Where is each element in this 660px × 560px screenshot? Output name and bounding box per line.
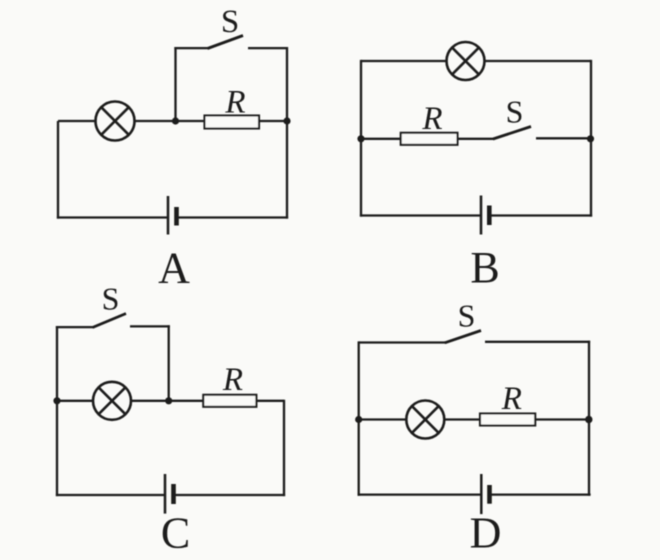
battery (circuit A) positive plate	[167, 196, 170, 235]
wire: D left vertical	[358, 341, 360, 495]
wire: B top right segment	[485, 60, 592, 62]
lamp (circuit C)	[93, 382, 131, 420]
battery (circuit B) negative plate	[487, 206, 492, 226]
wire: A switch branch top right	[248, 47, 288, 49]
svg-text:A: A	[158, 244, 190, 293]
battery (circuit D) negative plate	[487, 485, 492, 504]
wire: B left vertical	[360, 60, 362, 217]
node: D junction right	[585, 416, 592, 423]
node: A junction right	[283, 117, 290, 124]
wire: D middle right segment	[535, 418, 589, 420]
svg-text:S: S	[221, 4, 239, 40]
wire: D middle left segment	[359, 418, 407, 420]
wire: A main horizontal middle segment	[135, 120, 205, 122]
node: C junction middle	[165, 397, 172, 404]
node: B junction left	[357, 135, 364, 142]
wire: C main horizontal middle segment	[131, 400, 203, 402]
wire: D bottom left segment	[358, 493, 482, 495]
wire: B top left segment	[361, 60, 447, 62]
wire: B middle segment to switch	[458, 138, 495, 140]
svg-text:D: D	[470, 509, 502, 558]
lamp (circuit B)	[447, 42, 485, 80]
wire: C switch branch top left	[56, 326, 94, 328]
wire: A bottom right segment	[177, 216, 289, 218]
svg-text:R: R	[501, 381, 522, 417]
battery (circuit C) positive plate	[164, 474, 167, 514]
wire: A switch branch riser	[174, 47, 176, 121]
wire: D bottom right segment	[490, 493, 591, 495]
wire: A main horizontal left segment	[58, 120, 96, 122]
wire: A right vertical	[286, 47, 288, 219]
wire: D top left segment	[359, 341, 446, 343]
wire: C switch branch left riser	[56, 326, 58, 401]
switch S (circuit B) lever	[493, 127, 531, 140]
wire: A switch branch top left	[174, 47, 208, 49]
wire: C right vertical	[283, 400, 285, 496]
node: C junction left	[53, 397, 60, 404]
wire: B bottom right segment	[489, 214, 592, 216]
battery (circuit B) positive plate	[480, 196, 483, 235]
switch S (circuit A) lever	[208, 36, 244, 49]
wire: C bottom left segment	[56, 494, 165, 496]
wire: B right vertical	[590, 60, 592, 217]
node: B junction right	[587, 135, 594, 142]
wire: A bottom left segment	[57, 216, 168, 218]
node: D junction left	[355, 416, 362, 423]
battery (circuit A) negative plate	[174, 207, 179, 226]
switch S (circuit C) lever	[93, 314, 127, 328]
wire: C left vertical	[56, 401, 58, 496]
resistor R (circuit B)	[401, 133, 458, 145]
svg-text:S: S	[506, 94, 524, 130]
svg-text:B: B	[470, 243, 499, 292]
wire: B middle right segment	[536, 137, 591, 139]
wire: D right vertical	[588, 341, 590, 496]
svg-text:S: S	[458, 298, 476, 334]
resistor R (circuit A)	[205, 116, 260, 129]
lamp (circuit A)	[96, 102, 135, 141]
battery (circuit D) positive plate	[480, 474, 483, 514]
wire: C switch branch right riser	[168, 325, 170, 401]
battery (circuit C) negative plate	[171, 484, 176, 504]
svg-text:R: R	[222, 362, 243, 398]
svg-text:R: R	[421, 101, 442, 137]
wire: C main horizontal left segment	[57, 400, 93, 402]
wire: B middle left segment	[361, 138, 401, 140]
wire: C main horizontal right segment	[256, 400, 284, 402]
resistor R (circuit C)	[203, 395, 256, 407]
wire: C bottom right segment	[174, 494, 286, 496]
wire: D top right segment	[485, 341, 590, 343]
node: A junction left (lamp/resistor/switch branch)	[172, 117, 179, 124]
wire: A left vertical	[57, 121, 59, 219]
switch S (circuit D) lever	[445, 331, 481, 343]
svg-text:R: R	[224, 85, 245, 121]
resistor R (circuit D)	[480, 414, 535, 426]
wire: C switch branch top right	[130, 325, 170, 327]
wire: D middle segment lamp-to-resistor	[444, 418, 480, 420]
lamp (circuit D)	[406, 401, 444, 439]
wire: B bottom left segment	[360, 214, 481, 216]
svg-text:S: S	[102, 281, 120, 317]
wire: A main horizontal right segment	[259, 120, 287, 122]
svg-text:C: C	[161, 509, 190, 558]
